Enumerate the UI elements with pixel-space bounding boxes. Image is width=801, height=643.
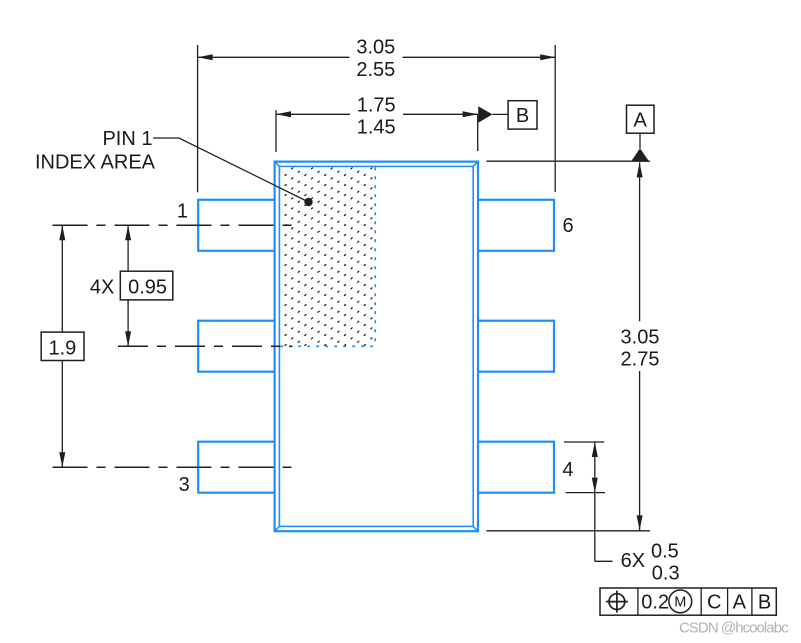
- feature control frame divider 1: [637, 588, 639, 615]
- svg-text:INDEX AREA: INDEX AREA: [35, 152, 156, 174]
- feature control frame divider 3: [727, 588, 729, 615]
- position symbol horizontal line: [606, 601, 628, 603]
- pin 5 (right middle lead): [476, 321, 554, 372]
- feature control frame outline: [600, 588, 776, 615]
- svg-text:2.55: 2.55: [356, 59, 395, 81]
- body top edge extension line to datum A: [486, 160, 650, 162]
- pin 3 (left bottom lead): [198, 442, 276, 493]
- svg-text:CSDN @hcoolabc: CSDN @hcoolabc: [679, 619, 789, 636]
- position symbol circle: [609, 594, 625, 610]
- body bottom edge extension line: [486, 530, 650, 532]
- datum B connector: [492, 113, 508, 115]
- dim 3.05/2.75 vertical line lower segment: [639, 371, 641, 530]
- centerline row 3: [53, 466, 297, 468]
- svg-text:2.75: 2.75: [621, 349, 660, 371]
- dim 3.05/2.55 left arrow: [198, 54, 213, 60]
- dim 1.9 box: [41, 332, 84, 360]
- dim 4X 0.95 down arrow: [125, 331, 131, 346]
- svg-text:C: C: [707, 591, 721, 613]
- centerline row 1: [53, 224, 295, 226]
- pin 1 index area dotted bottom border: [280, 345, 375, 347]
- dim 3.05/2.75 up arrow: [637, 162, 643, 177]
- pin width dim vertical line: [594, 442, 596, 561]
- pin 1 (left top lead): [198, 200, 276, 251]
- dim 3.05/2.55 right arrow: [540, 54, 555, 60]
- dim 4X 0.95 up arrow: [125, 225, 131, 240]
- datum A box: [627, 105, 655, 133]
- dim 1.9 line upper segment: [61, 225, 63, 332]
- pin 4 (right bottom lead): [476, 442, 554, 493]
- datum B box: [508, 101, 537, 129]
- dim 3.05/2.55 line left segment: [198, 56, 350, 58]
- pin 2 (left middle lead): [198, 321, 276, 372]
- dim 1.75/1.45 line left segment: [276, 113, 350, 115]
- dim 3.05/2.55 left extension line: [197, 45, 199, 192]
- dim 1.75/1.45 right arrow: [463, 111, 478, 117]
- dim 3.05/2.55 line right segment: [403, 56, 556, 58]
- centerline row 2: [118, 345, 293, 347]
- dim 0.95 box: [120, 271, 173, 300]
- modifier M circle: [669, 590, 692, 613]
- svg-text:PIN 1: PIN 1: [102, 128, 152, 150]
- svg-text:1: 1: [177, 200, 188, 222]
- body corner chamfer bottom-left: [275, 526, 280, 531]
- dim 1.75/1.45 line right segment: [403, 113, 478, 115]
- leader dot: [304, 198, 312, 206]
- feature control frame divider 4: [751, 588, 753, 615]
- svg-text:3: 3: [179, 474, 190, 496]
- svg-text:1.75: 1.75: [357, 94, 396, 116]
- dim 1.75/1.45 right extension line: [477, 114, 479, 151]
- package body outer outline: [275, 162, 478, 532]
- dim 1.9 line lower segment: [61, 361, 63, 468]
- svg-text:4: 4: [562, 459, 573, 481]
- svg-text:M: M: [674, 595, 686, 611]
- svg-text:0.5: 0.5: [651, 541, 679, 563]
- dim 4X 0.95 line lower segment: [127, 300, 129, 346]
- pin 6 (right top lead): [476, 200, 554, 251]
- svg-text:4X: 4X: [90, 277, 114, 299]
- svg-text:1.45: 1.45: [357, 116, 396, 138]
- pin 1 index area stipple fill: [280, 167, 375, 346]
- pin width dim upper extension line: [564, 441, 604, 443]
- pin 1 index area dotted right border: [374, 167, 376, 346]
- svg-text:A: A: [634, 109, 648, 131]
- feature control frame divider 2: [700, 588, 702, 615]
- svg-text:6X: 6X: [621, 550, 645, 572]
- svg-text:3.05: 3.05: [621, 327, 660, 349]
- datum A connector: [639, 133, 641, 148]
- svg-text:A: A: [733, 591, 747, 613]
- svg-text:0.95: 0.95: [128, 277, 167, 299]
- pin width dim lower extension line: [566, 492, 605, 494]
- dim 1.9 up arrow: [59, 225, 65, 240]
- svg-text:B: B: [758, 591, 771, 613]
- dim 4X 0.95 line upper segment: [127, 225, 129, 271]
- pin width dim up arrow: [592, 442, 598, 457]
- dim 3.05/2.75 down arrow: [637, 515, 643, 530]
- datum A triangle: [631, 148, 649, 161]
- svg-text:6: 6: [563, 215, 574, 237]
- leader line PIN 1 INDEX AREA: [153, 138, 308, 202]
- svg-text:B: B: [516, 105, 529, 127]
- dim 3.05/2.55 right extension line: [554, 45, 556, 192]
- svg-text:0.2: 0.2: [641, 591, 669, 613]
- body corner chamfer top-left: [275, 162, 280, 167]
- position symbol vertical line: [616, 591, 618, 613]
- dim 1.9 down arrow: [59, 452, 65, 467]
- dim 1.75/1.45 left arrow: [276, 111, 291, 117]
- pin width dim down arrow: [592, 478, 598, 493]
- svg-text:1.9: 1.9: [48, 338, 76, 360]
- body corner chamfer bottom-right: [473, 526, 478, 531]
- pin width dim leader jog: [595, 560, 613, 562]
- svg-text:0.3: 0.3: [652, 562, 680, 584]
- package body inner outline: [279, 166, 473, 526]
- body corner chamfer top-right: [473, 162, 478, 167]
- dim 3.05/2.75 vertical line upper segment: [639, 162, 641, 321]
- datum B triangle: [478, 106, 492, 123]
- svg-text:3.05: 3.05: [356, 36, 395, 58]
- dim 1.75/1.45 left extension line: [275, 110, 277, 152]
